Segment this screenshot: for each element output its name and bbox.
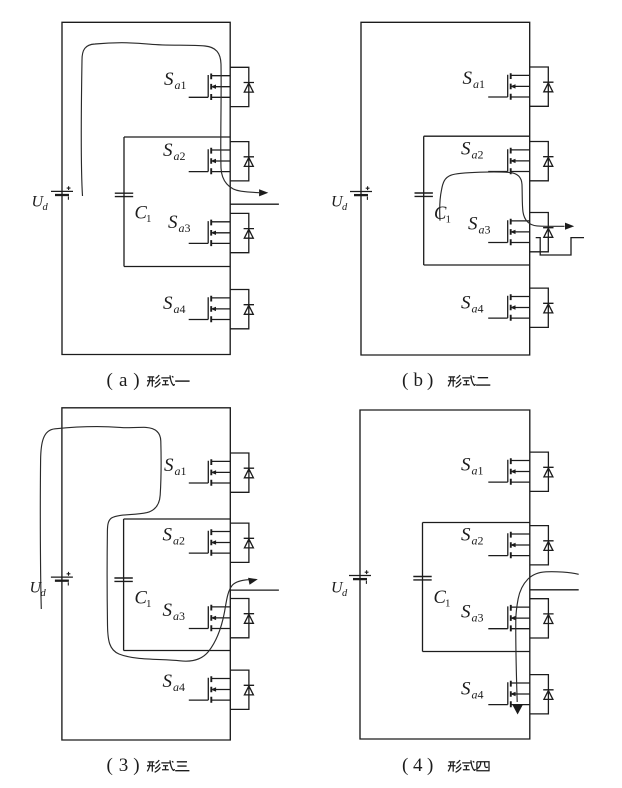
svg-text:S: S	[461, 525, 471, 546]
svg-text:1: 1	[146, 213, 152, 225]
svg-text:S: S	[461, 455, 471, 476]
svg-text:a2: a2	[472, 148, 484, 162]
svg-text:(3): (3)	[107, 755, 140, 776]
svg-text:d: d	[41, 588, 47, 599]
svg-text:1: 1	[146, 598, 152, 610]
svg-text:(b): (b)	[402, 370, 433, 391]
svg-text:S: S	[168, 212, 178, 233]
svg-text:S: S	[163, 140, 173, 161]
svg-text:a2: a2	[174, 149, 186, 163]
svg-text:a3: a3	[472, 611, 484, 625]
svg-text:a3: a3	[173, 609, 185, 623]
svg-text:1: 1	[445, 598, 451, 610]
svg-text:(4): (4)	[402, 755, 433, 776]
svg-text:a4: a4	[472, 688, 484, 702]
svg-text:S: S	[461, 679, 471, 700]
svg-text:a4: a4	[174, 302, 186, 316]
svg-text:S: S	[164, 69, 174, 90]
svg-text:a4: a4	[472, 302, 484, 316]
svg-text:d: d	[342, 202, 348, 213]
svg-text:a1: a1	[175, 78, 187, 92]
svg-text:d: d	[43, 202, 49, 213]
svg-text:a1: a1	[472, 464, 484, 478]
svg-text:S: S	[163, 525, 173, 546]
svg-text:d: d	[342, 588, 348, 599]
svg-text:S: S	[461, 602, 471, 623]
svg-text:S: S	[468, 214, 478, 235]
svg-text:1: 1	[446, 214, 452, 226]
svg-text:(a): (a)	[107, 370, 140, 391]
svg-text:a2: a2	[472, 534, 484, 548]
svg-text:a3: a3	[179, 221, 191, 235]
svg-text:a4: a4	[173, 680, 185, 694]
svg-text:S: S	[461, 139, 471, 160]
svg-text:S: S	[164, 455, 174, 476]
svg-text:S: S	[461, 293, 471, 314]
svg-text:S: S	[163, 600, 173, 621]
svg-text:S: S	[463, 68, 473, 89]
svg-text:S: S	[163, 293, 173, 314]
svg-text:a2: a2	[173, 534, 185, 548]
svg-text:a1: a1	[473, 77, 485, 91]
svg-text:a1: a1	[175, 464, 187, 478]
svg-text:a3: a3	[479, 223, 491, 237]
svg-text:S: S	[163, 671, 173, 692]
